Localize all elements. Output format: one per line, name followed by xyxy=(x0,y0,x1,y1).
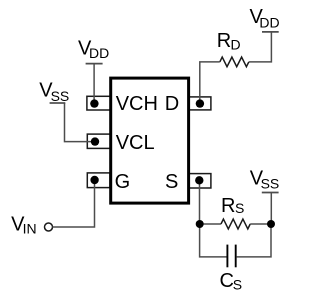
pin VCL terminal box xyxy=(87,134,110,148)
wire resistor RS to node B xyxy=(250,223,271,225)
resistor RS xyxy=(221,219,250,229)
svg-text:D: D xyxy=(165,93,179,115)
wire node A down to capacitor CS xyxy=(200,224,227,257)
pin VCL dot xyxy=(91,137,99,145)
pin G dot xyxy=(90,176,98,184)
svg-text:DD: DD xyxy=(89,45,109,61)
wire VIN to pin G xyxy=(53,180,95,227)
svg-text:R: R xyxy=(221,195,235,217)
svg-text:D: D xyxy=(231,37,241,53)
svg-text:VCH: VCH xyxy=(116,93,158,115)
pin D terminal box xyxy=(188,97,211,110)
svg-text:R: R xyxy=(217,30,231,52)
svg-text:SS: SS xyxy=(261,176,280,192)
pin VCH terminal box xyxy=(87,96,111,110)
pin VCH dot xyxy=(90,99,98,107)
svg-text:DD: DD xyxy=(259,14,279,30)
svg-text:VCL: VCL xyxy=(116,132,155,154)
pin S terminal box xyxy=(188,174,211,188)
wire RD to pin D xyxy=(200,62,220,104)
wire VDD bar to pin VCH xyxy=(93,64,95,104)
svg-text:S: S xyxy=(235,200,244,216)
wire VSS bar to pin VCL xyxy=(65,103,96,142)
svg-text:G: G xyxy=(115,171,131,193)
resistor RD xyxy=(220,57,249,67)
wire node B up to VSS bar xyxy=(270,193,272,225)
wire VDD bar down to resistor RD xyxy=(249,32,272,62)
svg-text:S: S xyxy=(233,276,242,292)
svg-text:S: S xyxy=(165,171,178,193)
svg-text:IN: IN xyxy=(23,221,37,237)
IC U1 body xyxy=(111,78,189,203)
pin D dot xyxy=(196,99,204,107)
svg-text:SS: SS xyxy=(51,88,70,104)
capacitor CS left plate xyxy=(226,245,228,268)
pin S dot xyxy=(195,176,203,184)
wire node A to resistor RS xyxy=(200,223,221,225)
pin G terminal box xyxy=(87,173,110,188)
wire pin S down to node A xyxy=(199,180,201,224)
junction node A dot xyxy=(196,220,204,228)
input VIN open terminal xyxy=(45,223,53,231)
supply VDD (top right) bar xyxy=(262,31,279,33)
supply VSS (left) bar xyxy=(50,102,66,104)
supply VDD (top centre) bar xyxy=(86,63,103,65)
capacitor CS right plate xyxy=(235,245,237,268)
junction node B dot xyxy=(267,220,275,228)
supply VSS (right) bar xyxy=(262,192,279,194)
wire capacitor CS to node B xyxy=(237,224,271,257)
